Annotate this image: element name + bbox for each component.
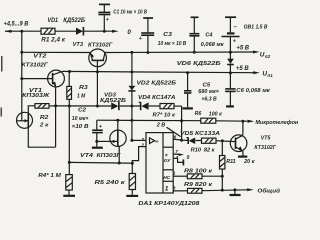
svg-text:КТ3102Г: КТ3102Г bbox=[88, 42, 113, 48]
svg-text:20 к: 20 к bbox=[243, 159, 256, 165]
label Upit1 bbox=[262, 70, 273, 77]
label Upit2 bbox=[260, 52, 271, 59]
wire VD1 to node 0 arrow bbox=[84, 30, 119, 33]
wire C2 to VT4 gate bbox=[97, 140, 111, 142]
svg-text:R6: R6 bbox=[195, 111, 202, 117]
resistor R11 bbox=[220, 141, 256, 190]
svg-text:∞: ∞ bbox=[155, 139, 159, 145]
wire VT1 source loop bbox=[28, 127, 55, 147]
capacitor C1 bbox=[98, 4, 147, 31]
capacitor C4 bbox=[189, 17, 224, 52]
capacitor C2 bbox=[72, 108, 103, 148]
wire R7 right vertical bbox=[181, 106, 183, 140]
resistor R2 bbox=[35, 104, 56, 129]
wire VT1 drain to R2 bbox=[28, 106, 35, 114]
svg-text:3: 3 bbox=[141, 137, 144, 143]
junction VD2 rail1 bbox=[130, 51, 133, 54]
wire rail to VT3 emitter bbox=[22, 51, 90, 53]
opamp DA1 box bbox=[138, 133, 200, 207]
pin 2 lead bbox=[132, 143, 146, 174]
ground main bbox=[230, 188, 241, 195]
wire VT3 base vertical bbox=[96, 60, 98, 106]
diode VD3 bbox=[100, 93, 126, 111]
resistor R3 bbox=[67, 72, 89, 100]
resistor R7 bbox=[153, 104, 177, 119]
junction VT2 emitter R2 line bbox=[54, 104, 57, 107]
svg-text:0У: 0У bbox=[164, 158, 171, 164]
wire left supply vertical bbox=[21, 31, 23, 113]
wire top rail input bbox=[4, 30, 41, 33]
svg-text:п2: п2 bbox=[265, 54, 271, 59]
svg-text:6: 6 bbox=[174, 134, 177, 140]
diode VD1 bbox=[48, 18, 86, 36]
svg-text:0: 0 bbox=[127, 29, 131, 36]
svg-text:+5 В: +5 В bbox=[236, 66, 250, 72]
wire VT2 emitter vertical bbox=[55, 86, 57, 147]
junction VD6 rail2 bbox=[229, 71, 232, 74]
wire diode line y106 bbox=[56, 105, 182, 107]
svg-text:Общий: Общий bbox=[257, 187, 280, 194]
svg-text:R4* 1 М: R4* 1 М bbox=[38, 173, 61, 179]
junction VT4 source bbox=[118, 162, 121, 165]
junction C2 gate branch bbox=[95, 140, 98, 143]
diode VD2 bbox=[128, 53, 176, 141]
junction GB1 rail1 bbox=[229, 51, 232, 54]
svg-text:НС: НС bbox=[163, 175, 170, 181]
pin 1 lead bbox=[173, 170, 187, 176]
junction VT4 drain bbox=[116, 119, 119, 122]
svg-text:R1 2,4 к: R1 2,4 к bbox=[41, 37, 66, 43]
wire rail2 Upit1 bbox=[62, 71, 260, 74]
svg-text:С5: С5 bbox=[203, 82, 212, 88]
junction R11 bottom rail bbox=[221, 189, 224, 192]
junction VD2 y120 line bbox=[130, 119, 133, 122]
junction R10 VT5 base bbox=[221, 139, 224, 142]
svg-text:С1 10 мк × 10 В: С1 10 мк × 10 В bbox=[113, 9, 147, 15]
svg-text:п1: п1 bbox=[267, 73, 273, 78]
svg-text:2 к: 2 к bbox=[39, 122, 50, 128]
transistor VT4 bbox=[80, 120, 126, 163]
junction pin3 bbox=[130, 139, 133, 142]
svg-text:2 В: 2 В bbox=[156, 122, 166, 128]
svg-text:4: 4 bbox=[175, 155, 179, 160]
svg-text:1: 1 bbox=[173, 170, 176, 175]
svg-text:VT3: VT3 bbox=[73, 42, 84, 48]
svg-text:R5 240 к: R5 240 к bbox=[95, 180, 127, 186]
transistor VT2 bbox=[22, 54, 65, 88]
junction input bbox=[20, 30, 23, 33]
junction VT5 collector bbox=[241, 120, 244, 123]
svg-text:+: + bbox=[99, 124, 102, 130]
transistor VT3 bbox=[73, 42, 113, 67]
pin 7 lead with arrow bbox=[173, 149, 189, 161]
svg-text:VD1: VD1 bbox=[48, 18, 59, 24]
svg-text:0,068 мк: 0,068 мк bbox=[201, 42, 225, 48]
junction supply to VT3 emitter rail bbox=[20, 51, 23, 54]
svg-text:R9 820 к: R9 820 к bbox=[184, 182, 213, 188]
svg-text:VD5 КС133А: VD5 КС133А bbox=[180, 131, 220, 137]
diode VD5 zener bbox=[180, 131, 220, 144]
wire rail1 +5V upper bbox=[105, 51, 260, 54]
junction C3 rail1 bbox=[146, 51, 149, 54]
junction R3 top bbox=[68, 70, 71, 73]
svg-text:КД522Б: КД522Б bbox=[63, 18, 85, 24]
resistor R9 bbox=[184, 182, 213, 193]
wire VD5 line bbox=[182, 140, 236, 141]
svg-text:VT5: VT5 bbox=[261, 136, 271, 142]
wire y120 line bbox=[97, 120, 254, 123]
svg-text:С6 0,068 мк: С6 0,068 мк bbox=[236, 88, 271, 94]
pin 8 lead bbox=[173, 185, 188, 191]
junction VT2 base bbox=[20, 77, 23, 80]
svg-text:Микротелефон: Микротелефон bbox=[255, 119, 299, 126]
svg-text:+5 В: +5 В bbox=[236, 45, 249, 51]
opamp symbol bbox=[150, 138, 159, 145]
svg-text:1 М: 1 М bbox=[77, 94, 85, 100]
junction pin2 R4 line bbox=[131, 162, 134, 165]
junction C5 rail2 bbox=[186, 71, 189, 74]
transistor VT5 bbox=[230, 121, 276, 157]
pin 6 lead bbox=[173, 134, 181, 140]
svg-text:×6,3 В: ×6,3 В bbox=[202, 96, 217, 102]
ground R5 bbox=[126, 190, 138, 196]
svg-text:1: 1 bbox=[165, 185, 169, 192]
wire R3 bottom vertical long bbox=[68, 99, 70, 174]
svg-text:VD6 КД522Б: VD6 КД522Б bbox=[177, 61, 221, 67]
label 2 V callout bbox=[156, 122, 181, 136]
battery GB1 bbox=[222, 17, 268, 52]
junction VT3 base on +5V rail2 bbox=[96, 70, 99, 73]
junction C4 rail1 bbox=[193, 51, 196, 54]
resistor R8 bbox=[184, 169, 222, 179]
svg-text:680 мк×: 680 мк× bbox=[198, 89, 219, 95]
svg-text:GB1 1,5 В: GB1 1,5 В bbox=[244, 25, 268, 31]
resistor R6 bbox=[195, 111, 223, 123]
junction VD2 diode line bbox=[130, 105, 133, 108]
svg-text:КП303Г: КП303Г bbox=[97, 153, 121, 159]
svg-text:VD2 КД522Б: VD2 КД522Б bbox=[137, 80, 177, 86]
wire R4 R5 line y163 bbox=[69, 161, 132, 164]
svg-text:×10 В: ×10 В bbox=[72, 124, 89, 130]
cell label 0U bbox=[164, 152, 171, 164]
pin 3 lead bbox=[132, 137, 146, 143]
junction R7 vertical VD5 line bbox=[180, 139, 183, 142]
edge artifact lower bbox=[0, 108, 2, 117]
junction C1 top rail bbox=[103, 30, 106, 33]
svg-text:+4,5...9 В: +4,5...9 В bbox=[4, 21, 29, 27]
svg-text:С3: С3 bbox=[163, 32, 173, 38]
svg-text:R10: R10 bbox=[191, 147, 202, 153]
wire bottom common rail bbox=[202, 188, 254, 191]
capacitor C5 bbox=[183, 73, 220, 109]
junction R11 R8 bbox=[221, 175, 224, 178]
junction VT3 base on diode line bbox=[96, 105, 99, 108]
junction R4 top bbox=[68, 161, 71, 164]
resistor R4 bbox=[38, 173, 72, 190]
svg-text:7: 7 bbox=[175, 149, 178, 154]
diode VD4 zener bbox=[138, 95, 176, 110]
resistor R1 bbox=[41, 28, 66, 43]
svg-text:R7* 10 к: R7* 10 к bbox=[153, 113, 177, 119]
svg-text:R8 100 к: R8 100 к bbox=[184, 169, 213, 175]
junction VD2 rail2 bbox=[130, 71, 133, 74]
junction R3 diode line bbox=[68, 105, 71, 108]
transistor VT1 bbox=[17, 88, 50, 128]
diode VD6 bbox=[177, 52, 234, 73]
resistor R5 bbox=[95, 174, 136, 190]
capacitor C6 bbox=[225, 73, 271, 107]
pin 4 lead to chassis bbox=[173, 155, 183, 166]
junction R7 vertical y120 bbox=[180, 119, 183, 122]
wire R1 to VD1 bbox=[55, 30, 76, 32]
svg-text:R11: R11 bbox=[226, 159, 236, 165]
svg-text:С4: С4 bbox=[205, 33, 213, 39]
svg-text:VD4 КС147А: VD4 КС147А bbox=[138, 95, 176, 101]
ground R4 bbox=[63, 190, 75, 196]
svg-text:R2: R2 bbox=[40, 115, 49, 121]
svg-text:10 мк×: 10 мк× bbox=[72, 116, 89, 122]
edge artifact upper bbox=[1, 56, 3, 72]
svg-text:0: 0 bbox=[187, 155, 190, 161]
svg-text:VT4: VT4 bbox=[80, 153, 94, 159]
svg-text:82 к: 82 к bbox=[204, 147, 216, 153]
svg-text:100 к: 100 к bbox=[209, 111, 223, 117]
svg-text:VT2: VT2 bbox=[33, 54, 47, 60]
svg-text:2: 2 bbox=[140, 143, 144, 149]
svg-text:КТ3102Г: КТ3102Г bbox=[254, 145, 276, 151]
svg-text:КП303Ж: КП303Ж bbox=[22, 93, 50, 99]
svg-text:DA1 КР140УД1208: DA1 КР140УД1208 bbox=[138, 201, 200, 207]
svg-text:КТ3102Г: КТ3102Г bbox=[22, 62, 49, 68]
svg-text:8: 8 bbox=[173, 185, 176, 190]
svg-text:КД522Б: КД522Б bbox=[100, 98, 126, 104]
capacitor C3 bbox=[139, 18, 187, 53]
svg-text:С2: С2 bbox=[78, 108, 87, 114]
resistor R10 bbox=[191, 138, 216, 153]
svg-text:10 мк × 10 В: 10 мк × 10 В bbox=[158, 41, 187, 47]
svg-text:R3: R3 bbox=[79, 85, 89, 91]
